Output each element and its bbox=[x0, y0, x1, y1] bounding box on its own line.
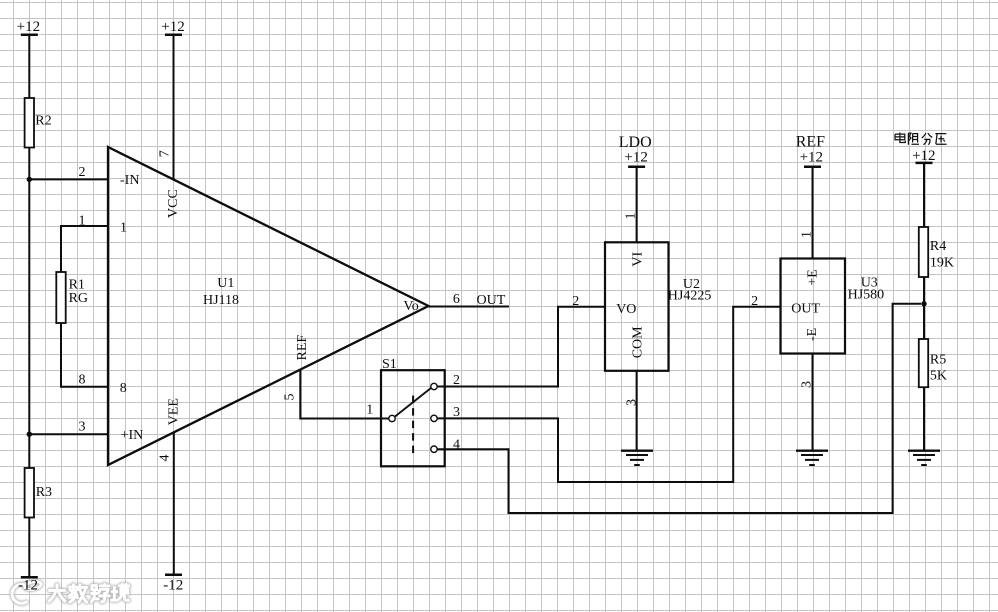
power +12 (VCC rail) bbox=[161, 19, 184, 35]
wire output pin 6 OUT bbox=[429, 292, 510, 308]
char 分 bbox=[922, 133, 932, 145]
svg-text:8: 8 bbox=[120, 381, 127, 396]
svg-text:1: 1 bbox=[79, 213, 86, 228]
svg-text:+12: +12 bbox=[912, 148, 935, 164]
switch terminal 2 bbox=[431, 373, 460, 390]
regulator U2 HJ4225 box bbox=[605, 242, 669, 370]
resistor R4 19K bbox=[919, 227, 954, 277]
resistor R3 bbox=[25, 468, 52, 518]
svg-text:VI: VI bbox=[631, 251, 646, 266]
svg-text:8: 8 bbox=[79, 372, 86, 387]
svg-text:-12: -12 bbox=[18, 578, 38, 594]
svg-text:R3: R3 bbox=[36, 485, 52, 500]
wire VCC pin 7 bbox=[173, 35, 175, 180]
wire +12 to U2 pin1 bbox=[623, 167, 638, 243]
svg-text:OUT: OUT bbox=[477, 293, 506, 308]
svg-text:5K: 5K bbox=[930, 369, 947, 384]
svg-text:2: 2 bbox=[572, 294, 579, 309]
char 阻 bbox=[908, 133, 919, 145]
wire R1 to pin8 bbox=[61, 323, 108, 387]
wire +12 to U3 pin1 bbox=[800, 167, 815, 259]
node junction at +IN bbox=[27, 432, 32, 437]
svg-text:2: 2 bbox=[79, 165, 86, 180]
char 电 bbox=[895, 133, 905, 143]
wire U2 pin3 to ground bbox=[625, 371, 640, 451]
op-amp U1 labels bbox=[120, 173, 419, 443]
svg-text:Vo: Vo bbox=[403, 299, 418, 314]
power +12 (left rail) bbox=[17, 19, 40, 35]
svg-text:HJ118: HJ118 bbox=[203, 293, 239, 308]
svg-text:S1: S1 bbox=[382, 357, 397, 372]
resistor R5 5K bbox=[919, 339, 947, 387]
svg-text:U1: U1 bbox=[217, 276, 234, 291]
svg-text:3: 3 bbox=[79, 420, 86, 435]
power +12 (divider rail) bbox=[912, 148, 935, 164]
svg-text:HJ4225: HJ4225 bbox=[668, 289, 712, 304]
svg-text:+E: +E bbox=[805, 269, 820, 285]
switch S1 box bbox=[381, 357, 445, 466]
wire R2 to R3 (left rail vertical) bbox=[28, 148, 30, 469]
wire +12 to R2 bbox=[28, 35, 30, 98]
svg-text:7: 7 bbox=[158, 150, 173, 157]
svg-text:COM: COM bbox=[631, 326, 646, 358]
svg-text:LDO: LDO bbox=[619, 134, 652, 151]
svg-text:RG: RG bbox=[69, 291, 88, 306]
ground under R5 bbox=[908, 451, 940, 465]
svg-text:3: 3 bbox=[625, 399, 640, 406]
char 压 bbox=[935, 134, 946, 145]
ground under U2 bbox=[621, 451, 653, 465]
svg-text:3: 3 bbox=[800, 381, 815, 388]
net label 电阻分压 (hand-drawn strokes) bbox=[895, 133, 947, 145]
wire S1 pin4 to divider node bbox=[437, 304, 921, 513]
wire +12 to R4 bbox=[923, 163, 925, 227]
op-amp U1 HJ118 triangle body bbox=[108, 147, 429, 465]
U3 designator labels bbox=[848, 276, 885, 303]
power -12 (left rail) bbox=[18, 577, 38, 593]
wire S1 pin2 to U2 VO bbox=[437, 294, 605, 387]
watermark logo and text (gray halo layer) bbox=[12, 580, 129, 603]
svg-text:19K: 19K bbox=[930, 256, 954, 271]
svg-text:R2: R2 bbox=[35, 114, 51, 129]
svg-text:-IN: -IN bbox=[120, 173, 139, 188]
svg-text:VO: VO bbox=[616, 302, 636, 317]
power +12 (REF rail) bbox=[800, 150, 823, 167]
wire VEE pin 4 bbox=[173, 433, 175, 575]
svg-text:-12: -12 bbox=[163, 578, 183, 594]
wire pin2 -IN bbox=[29, 165, 108, 180]
watermark logo and text (white core layer) bbox=[12, 580, 129, 603]
svg-text:HJ580: HJ580 bbox=[848, 288, 885, 303]
svg-text:R5: R5 bbox=[930, 353, 946, 368]
U2 designator labels bbox=[668, 277, 712, 304]
wire REF pin 5 to S1 bbox=[300, 370, 389, 419]
svg-text:1: 1 bbox=[366, 403, 373, 418]
svg-text:VCC: VCC bbox=[166, 189, 181, 218]
node junction at -IN bbox=[27, 177, 32, 182]
svg-text:4: 4 bbox=[453, 438, 460, 453]
wire pin3 +IN bbox=[29, 420, 108, 435]
switch S1 linkage dashed bbox=[412, 396, 414, 458]
wire U3 pin3 to ground bbox=[800, 354, 815, 451]
svg-text:+12: +12 bbox=[161, 19, 184, 35]
svg-text:+12: +12 bbox=[17, 19, 40, 35]
svg-text:+IN: +IN bbox=[121, 428, 144, 443]
wire S1 pin3 to U3 OUT bbox=[437, 294, 780, 482]
wire pin1 to R1 bbox=[61, 213, 108, 272]
reference U3 HJ580 box bbox=[781, 259, 846, 354]
ground under U3 bbox=[796, 451, 828, 465]
svg-text:+12: +12 bbox=[624, 150, 647, 166]
svg-text:VEE: VEE bbox=[166, 398, 181, 425]
switch terminal 4 bbox=[431, 438, 460, 453]
svg-text:REF: REF bbox=[295, 335, 310, 361]
node junction divider tap bbox=[921, 301, 926, 306]
switch terminal 3 bbox=[431, 405, 460, 422]
resistor R1 RG bbox=[56, 272, 88, 323]
wire R3 to -12 bbox=[28, 518, 30, 578]
svg-text:1: 1 bbox=[623, 213, 638, 220]
wire R5 to ground bbox=[923, 387, 925, 450]
resistor R2 bbox=[25, 98, 52, 148]
svg-text:-E: -E bbox=[805, 328, 820, 341]
svg-text:+12: +12 bbox=[800, 150, 823, 166]
switch S1 lever bbox=[395, 388, 431, 417]
svg-text:1: 1 bbox=[120, 221, 127, 236]
power -12 (VEE rail) bbox=[163, 575, 183, 594]
svg-text:4: 4 bbox=[157, 455, 172, 462]
svg-text:OUT: OUT bbox=[791, 302, 820, 317]
svg-text:6: 6 bbox=[453, 292, 460, 307]
wire R4 to R5 bbox=[923, 277, 925, 339]
switch terminal 1 bbox=[366, 403, 395, 422]
svg-text:5: 5 bbox=[283, 394, 298, 401]
svg-text:REF: REF bbox=[796, 134, 825, 151]
svg-text:R4: R4 bbox=[930, 239, 946, 254]
power +12 (LDO rail) bbox=[624, 150, 647, 167]
svg-text:1: 1 bbox=[800, 231, 815, 238]
svg-text:2: 2 bbox=[751, 294, 758, 309]
